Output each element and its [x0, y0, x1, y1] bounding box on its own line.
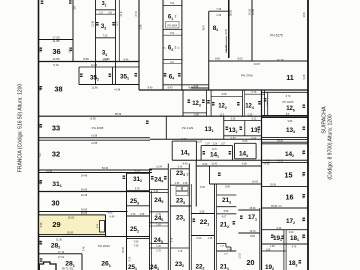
svg-text:24.43: 24.43 — [81, 188, 88, 191]
ticks left of 12-2 — [212, 102, 215, 106]
svg-text:8.06: 8.06 — [225, 185, 230, 188]
wall: 23-3 bottom — [170, 205, 191, 207]
wall: 12-3 bottom — [183, 112, 207, 114]
building notch in 29 — [100, 221, 105, 233]
svg-text:7.36: 7.36 — [216, 8, 221, 11]
wall: 24-5 bottom — [150, 211, 169, 213]
ticks left of 12-3 — [188, 100, 191, 104]
wall: 17-2 bottom — [262, 229, 308, 231]
ticks left of 13-2 — [226, 127, 229, 131]
wall: 25/24 divider — [149, 169, 151, 270]
svg-text:36.33: 36.33 — [230, 9, 233, 16]
ticks right of 35-1 — [135, 73, 138, 77]
wall: 14-4 right — [255, 143, 257, 159]
svg-text:1.65: 1.65 — [156, 224, 161, 226]
ticks east of 12-4 — [258, 101, 261, 105]
svg-text:7.01: 7.01 — [170, 32, 175, 35]
svg-text:12.06: 12.06 — [91, 64, 98, 67]
wall: 28-1/26-1 divider — [81, 254, 83, 270]
wall: 19/18 divider b — [285, 230, 287, 270]
wall: 12-4 left — [244, 90, 246, 116]
wall: 8-2 left — [208, 11, 210, 90]
svg-text:11: 11 — [286, 73, 294, 82]
svg-text:25.05: 25.05 — [81, 212, 88, 215]
ticks top of 36 right — [69, 0, 72, 4]
wall: patio inner — [209, 166, 211, 184]
wall: 14-4 top — [235, 142, 257, 144]
wall: 25-2 top — [127, 215, 150, 217]
wall: 23/22 divider — [188, 164, 190, 270]
PH 2504 box — [166, 22, 180, 29]
svg-text:5.08: 5.08 — [40, 222, 43, 227]
wall: 24-5 top — [150, 191, 169, 193]
wall: 3-column left — [95, 0, 97, 85]
wall: 12-2 right — [242, 90, 244, 116]
ticks left of 31-2 — [123, 176, 126, 180]
svg-text:8.68: 8.68 — [83, 57, 89, 61]
svg-text:58.39: 58.39 — [115, 113, 122, 116]
ticks right of 18-1 — [303, 235, 306, 239]
svg-text:(Código: 8 9700) Altura: 1200: (Código: 8 9700) Altura: 1200 — [328, 114, 334, 180]
ticks left of 3-3 — [96, 22, 99, 26]
wall: 3-column right — [115, 0, 117, 85]
ticks in 12-6 sliver — [264, 98, 267, 102]
svg-text:8.60: 8.60 — [103, 58, 108, 61]
wall: parcel 36/38 divider — [39, 61, 140, 63]
wall: 3-3/3-4 divider — [96, 37, 116, 39]
wall: 16/17 divider — [262, 207, 308, 209]
wall: 14-3 right — [195, 141, 197, 160]
wall: main east-west spine — [139, 89, 308, 91]
svg-text:11.41: 11.41 — [211, 162, 218, 165]
svg-text:30: 30 — [51, 199, 59, 208]
svg-text:9.84: 9.84 — [288, 120, 293, 123]
svg-text:4.95: 4.95 — [140, 214, 145, 216]
svg-text:24.48: 24.48 — [81, 175, 88, 178]
wall: 15/16 divider — [262, 186, 308, 188]
wall: 30/29 divider — [39, 211, 128, 213]
wall: 6-column left — [162, 0, 164, 90]
ticks right of 13-4 — [303, 127, 306, 131]
svg-text:PH 5175: PH 5175 — [270, 34, 283, 38]
svg-text:25.00: 25.00 — [68, 216, 75, 219]
wall: 17-1 top — [238, 209, 259, 211]
wall: 24-6 bottom — [150, 222, 169, 224]
svg-text:7.26: 7.26 — [156, 245, 161, 248]
wall: 23-4 bottom — [170, 184, 189, 186]
svg-text:29: 29 — [52, 220, 60, 229]
svg-text:6.20: 6.20 — [289, 232, 294, 234]
wall: sliver east of 12-4 — [267, 92, 269, 116]
svg-text:0.76: 0.76 — [252, 91, 257, 94]
wall: 3-1 bottom — [96, 9, 116, 11]
wall: 24 strip b — [150, 247, 169, 249]
svg-text:20.70: 20.70 — [277, 58, 284, 62]
svg-text:1.36: 1.36 — [216, 14, 221, 17]
ticks left of 29 — [40, 221, 43, 225]
svg-text:6.36: 6.36 — [242, 162, 247, 165]
wall: 23 lower divider — [170, 247, 189, 249]
ticks mid void — [146, 121, 149, 125]
ticks in patio — [218, 173, 221, 177]
svg-text:12.36: 12.36 — [92, 20, 95, 27]
ticks left of 22-1 — [193, 219, 196, 223]
ticks right of 6-4 — [178, 73, 181, 77]
wall: 13-2 top strip — [224, 120, 262, 122]
wall: 12-3 left — [182, 90, 184, 116]
wall: parcel 36 top — [39, 39, 74, 41]
svg-text:10.87: 10.87 — [196, 140, 203, 143]
wall: 24 strip — [150, 225, 169, 227]
wall: 22/21 divider — [214, 184, 216, 270]
wall: 14 row bottom long — [172, 159, 308, 161]
svg-text:PH 2008: PH 2008 — [92, 126, 104, 130]
ticks left of 19-1 — [271, 235, 274, 239]
wall: 35-2 left — [78, 67, 80, 85]
wall: 6 top strip — [163, 4, 182, 6]
svg-text:32: 32 — [52, 150, 60, 159]
svg-text:7.48: 7.48 — [82, 246, 85, 251]
svg-text:12.86: 12.86 — [53, 57, 60, 61]
wall: long corridor west — [138, 0, 140, 90]
wall: 32/31 divider — [39, 169, 153, 171]
svg-text:8.22: 8.22 — [252, 118, 257, 121]
svg-text:PH 10476: PH 10476 — [282, 101, 294, 104]
svg-text:6.46: 6.46 — [110, 216, 115, 219]
wall: 29 bottom — [39, 234, 106, 236]
wall: 14-3 left — [171, 141, 173, 160]
wall: 12 sliver left — [206, 90, 208, 116]
wall: 8-2 top — [209, 10, 229, 12]
svg-text:FRANCIA (Código: 516 50) Altur: FRANCIA (Código: 516 50) Altura: 1200 — [18, 84, 24, 173]
wall: 12 sliver right — [210, 90, 212, 116]
ticks right of 12-6 — [303, 105, 306, 109]
wall: 29 top — [39, 214, 106, 216]
wall: parcel 36 right — [72, 0, 74, 62]
wall: 25-2 bottom — [127, 238, 150, 240]
svg-text:7.26: 7.26 — [134, 244, 139, 247]
wall: right col 13-4 bottom b — [262, 138, 308, 140]
wall: 13-1 left — [165, 116, 167, 139]
svg-text:1.78: 1.78 — [178, 251, 183, 253]
svg-text:24.67: 24.67 — [254, 63, 261, 66]
svg-text:7.01: 7.01 — [170, 2, 175, 5]
wall: 29/28 divider — [39, 236, 151, 238]
wall: 8-2 bottom / PH3766 top — [209, 60, 252, 62]
wall: 25-3 bottom — [127, 205, 150, 207]
svg-text:13.02: 13.02 — [239, 252, 241, 258]
wall: 23/22 divider b — [190, 184, 192, 270]
ticks right of 14-1 — [229, 151, 232, 155]
svg-text:46.9: 46.9 — [203, 25, 206, 30]
wall: 14-1 top — [201, 145, 232, 147]
svg-text:+4.43: +4.43 — [46, 170, 53, 173]
svg-text:0.40: 0.40 — [178, 167, 183, 169]
ticks right of 35-2 — [109, 74, 112, 78]
wall: 8-2 right inner — [225, 36, 227, 53]
right block boundary (SUIPACHA frontage) — [307, 0, 309, 270]
wall: 35 row top — [79, 66, 139, 68]
wall: 17-1 bottom — [238, 232, 259, 234]
svg-text:36: 36 — [52, 47, 60, 56]
svg-text:+3.58: +3.58 — [91, 142, 98, 145]
svg-text:8.88: 8.88 — [224, 210, 229, 213]
wall: 22-1 bottom — [191, 235, 214, 237]
ticks right of 24-4 — [164, 176, 167, 180]
ticks left of 38 — [40, 86, 43, 90]
ticks left of 17-1 — [240, 216, 243, 220]
svg-text:11.07: 11.07 — [225, 44, 228, 50]
svg-text:38: 38 — [54, 85, 62, 94]
svg-text:8.06: 8.06 — [203, 163, 208, 166]
wall: 24-4 top — [150, 168, 169, 170]
wall: 21-2 step — [225, 244, 227, 248]
wall: 31/30 divider — [39, 191, 151, 193]
wall: right col 13-4 bottom — [262, 137, 308, 139]
ticks right of 12-2 — [237, 102, 240, 106]
ticks right of 21-2 — [233, 221, 236, 225]
svg-text:12.3: 12.3 — [116, 21, 119, 26]
wall: 6-col bottom — [163, 84, 209, 86]
wall: 35 row bottom — [79, 84, 139, 86]
svg-text:16: 16 — [286, 193, 294, 202]
wall: 19-2 top — [262, 250, 286, 252]
svg-text:4.38: 4.38 — [183, 183, 188, 185]
svg-text:1.78: 1.78 — [156, 250, 161, 252]
svg-text:+4.04: +4.04 — [265, 161, 272, 163]
svg-text:53.06: 53.06 — [102, 167, 109, 170]
svg-text:16.07: 16.07 — [225, 28, 228, 35]
ticks left of 14-1 — [203, 151, 206, 155]
svg-text:16.63: 16.63 — [252, 181, 259, 184]
svg-text:8.44: 8.44 — [124, 58, 129, 61]
wall: 24/23 divider — [167, 164, 169, 270]
svg-text:8.66: 8.66 — [108, 212, 113, 215]
stair box b between 23 and 22 — [183, 187, 189, 191]
wall: 19/18 divider — [283, 230, 285, 270]
svg-text:17.02: 17.02 — [58, 256, 65, 259]
wall: 14-2 top b — [262, 143, 308, 145]
svg-text:5.20: 5.20 — [197, 237, 202, 240]
svg-text:2: 2 — [175, 46, 177, 50]
wall: patio bottom — [210, 183, 262, 185]
left block boundary (FRANCIA frontage) — [38, 0, 40, 270]
svg-text:5.66: 5.66 — [194, 87, 199, 90]
ticks right of 16 — [303, 194, 306, 198]
wall: 14-1 left — [200, 146, 202, 161]
wall: PH5175 bottom — [252, 60, 308, 62]
wall: spine double right — [262, 91, 308, 93]
svg-text:15: 15 — [285, 171, 293, 180]
svg-text:20: 20 — [247, 258, 255, 267]
svg-text:24.38: 24.38 — [81, 194, 88, 197]
wall: 8-2 right (party wall) — [228, 0, 230, 58]
ticks right of 36 — [70, 48, 73, 52]
ticks right of 3-3 — [112, 22, 115, 26]
svg-text:5.68: 5.68 — [200, 210, 205, 213]
svg-text:8.79: 8.79 — [129, 256, 131, 261]
svg-text:11.88: 11.88 — [53, 39, 60, 43]
svg-text:7.33: 7.33 — [103, 35, 108, 38]
ticks left of 33 — [40, 124, 43, 128]
ticks left of 36 — [40, 48, 43, 52]
svg-text:1.78: 1.78 — [131, 214, 136, 216]
wall: right col 12-6/13-4 divider — [262, 115, 308, 117]
parcel 29 highlight fill — [39, 215, 105, 235]
ticks left of 28-2 — [40, 241, 43, 245]
wall: 13-2/13-3 divider — [244, 121, 246, 136]
stair box c between 23 and 22 — [176, 192, 188, 196]
wall: 23-4 top — [170, 168, 189, 170]
wall: 13-1 right — [223, 116, 225, 139]
svg-text:8.86: 8.86 — [250, 235, 255, 238]
svg-text:PH 3766: PH 3766 — [241, 74, 253, 78]
svg-text:PH 1129: PH 1129 — [182, 126, 194, 130]
ticks left of 35-2 — [80, 74, 83, 78]
svg-text:+3.58: +3.58 — [91, 135, 98, 138]
wall: 13-2 bottom strip — [224, 135, 262, 137]
wall: 12/13 divider full width — [39, 115, 309, 117]
wall: 14-4 left — [234, 143, 236, 159]
ticks right of 17-2 — [303, 218, 306, 222]
svg-text:34.56: 34.56 — [277, 139, 284, 142]
wall: patio left — [195, 160, 197, 206]
svg-text:+4.38: +4.38 — [114, 89, 121, 92]
wall: 24/23 divider b — [169, 169, 171, 270]
svg-text:6.36: 6.36 — [231, 118, 236, 121]
wall: 3-column right double — [118, 0, 120, 62]
ticks right of 13-3 — [258, 127, 261, 131]
svg-text:6.76: 6.76 — [135, 188, 140, 191]
wall: 21-1 top — [217, 250, 237, 252]
svg-text:2: 2 — [175, 15, 177, 19]
svg-text:8.00: 8.00 — [238, 58, 243, 61]
svg-text:9.25: 9.25 — [303, 74, 306, 79]
ticks left of 6-4 — [164, 73, 167, 77]
svg-text:6.76: 6.76 — [292, 247, 297, 249]
wall: 6-1 bottom — [163, 29, 182, 31]
wall: 24-3 bottom — [150, 243, 169, 245]
svg-text:8.06: 8.06 — [200, 186, 205, 189]
svg-text:1.35: 1.35 — [175, 183, 180, 185]
svg-text:8.40: 8.40 — [168, 87, 173, 90]
ticks right of 14-2 — [303, 151, 306, 155]
svg-text:28.06: 28.06 — [250, 207, 257, 210]
svg-text:+3.58: +3.58 — [89, 118, 96, 121]
svg-text:3.26: 3.26 — [213, 143, 218, 145]
wall: east column west edge — [261, 90, 263, 270]
wall: 14-2 bottom — [262, 161, 308, 163]
wall: 33/32 divider b — [39, 139, 151, 141]
stair box a between 23 and 22 — [176, 187, 182, 191]
svg-text:5.10: 5.10 — [53, 63, 59, 67]
wall: 21-3 bottom — [217, 206, 237, 208]
wall: 24-4 bottom — [150, 189, 169, 191]
svg-text:8.14: 8.14 — [171, 237, 173, 242]
svg-text:1.08: 1.08 — [270, 246, 275, 248]
wall: 21-2 bottom step a — [217, 243, 227, 245]
wall: 21-2 bottom step b — [226, 246, 231, 248]
ticks left of 31-1 — [40, 180, 43, 184]
svg-text:8.40: 8.40 — [148, 87, 153, 90]
wall: cluster west edge — [126, 173, 128, 270]
wall: 19-1 bottom — [262, 243, 308, 245]
svg-text:8.66: 8.66 — [215, 58, 220, 61]
wall: 25/24 divider b — [151, 191, 153, 270]
svg-text:25.28: 25.28 — [123, 246, 125, 252]
wall: 6-2 bottom — [163, 59, 182, 61]
svg-text:35.06: 35.06 — [270, 184, 277, 187]
wall: 12-4 right — [264, 90, 266, 116]
svg-text:2.58: 2.58 — [140, 24, 143, 29]
svg-text:8.40: 8.40 — [182, 138, 187, 141]
svg-text:1.98: 1.98 — [266, 249, 271, 251]
svg-text:33: 33 — [52, 124, 60, 133]
ticks right of 19-1 — [281, 236, 284, 240]
wall: 14-4 bottom — [235, 158, 257, 160]
svg-text:13.8: 13.8 — [303, 12, 306, 17]
svg-text:6.07: 6.07 — [222, 217, 227, 219]
svg-text:PH 2504: PH 2504 — [167, 24, 177, 27]
wall: 14-2 top — [262, 141, 308, 143]
wall: PH5175 left — [251, 0, 253, 61]
wall: 6-4 top — [163, 63, 182, 65]
building footprint in 28-1 — [39, 262, 56, 270]
svg-text:PH 20/01: PH 20/01 — [98, 244, 110, 248]
svg-text:8.66: 8.66 — [189, 87, 194, 90]
ticks in 12 sliver — [207, 100, 210, 104]
svg-text:16.70: 16.70 — [250, 230, 257, 233]
svg-text:1.07: 1.07 — [221, 143, 226, 145]
wall: 12-4 top strip — [245, 93, 265, 95]
wall: 12-2 top strip — [211, 95, 242, 97]
wall: 28-2/28-1 divider — [39, 253, 83, 255]
svg-text:7.06: 7.06 — [134, 240, 139, 243]
wall: 13 row bottom — [150, 138, 262, 140]
svg-text:5.08: 5.08 — [222, 93, 227, 96]
wall: 3 small strip — [96, 13, 116, 15]
wall: 22-1 top — [191, 213, 214, 215]
wall: 31-2 bottom — [127, 190, 151, 192]
svg-text:3: 3 — [187, 173, 189, 177]
ticks left of 24-4 — [151, 176, 154, 180]
ticks right of 12-3 — [202, 100, 205, 104]
wall: yard divider west of 8-2 — [191, 87, 209, 89]
ticks right of 15 — [303, 172, 306, 176]
svg-text:6.26: 6.26 — [243, 140, 248, 143]
svg-text:43.24: 43.24 — [134, 170, 141, 173]
wall: 35-2/35-1 divider — [112, 67, 114, 85]
wall: 32/31 divider b — [39, 172, 153, 174]
wall: east column west edge b — [259, 208, 261, 270]
wall: right col 12-6/13-4 divider b — [262, 117, 308, 119]
svg-text:12.66: 12.66 — [91, 86, 98, 89]
wall: 31-2 top — [127, 172, 151, 174]
wall: 14-3 top — [172, 140, 196, 142]
wall: 29 right — [105, 215, 107, 237]
svg-text:11.50: 11.50 — [56, 239, 63, 242]
wall: patio top — [196, 165, 261, 167]
ticks left of 28-1 — [40, 258, 43, 262]
wall: 21-2 top — [217, 213, 237, 215]
svg-text:+2.34: +2.34 — [156, 166, 163, 169]
ticks right of 13-2 — [240, 127, 243, 131]
svg-text:1.97: 1.97 — [205, 143, 210, 145]
svg-text:5.26: 5.26 — [277, 227, 282, 230]
wall: 6 strip line — [163, 34, 182, 36]
svg-text:27.8: 27.8 — [135, 11, 138, 16]
svg-text:17.12: 17.12 — [58, 251, 65, 254]
